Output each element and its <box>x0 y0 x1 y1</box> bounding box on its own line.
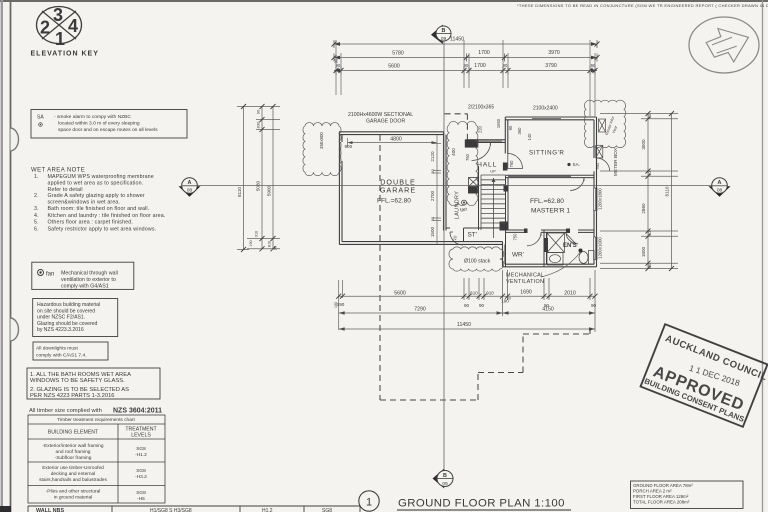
svg-text:3790: 3790 <box>545 63 557 69</box>
svg-text:830: 830 <box>256 121 261 128</box>
svg-text:GROUND FLOOR AREA 78m²: GROUND FLOOR AREA 78m² <box>633 483 693 488</box>
svg-text:4: 4 <box>68 16 78 36</box>
svg-text:90: 90 <box>647 231 652 236</box>
svg-text:ELEVATION KEY: ELEVATION KEY <box>31 51 99 58</box>
svg-text:UP: UP <box>490 169 496 174</box>
svg-text:SG8: SG8 <box>136 468 146 474</box>
svg-text:90: 90 <box>647 113 652 118</box>
svg-text:910: 910 <box>486 291 494 296</box>
svg-text:ST': ST' <box>468 232 477 239</box>
svg-text:SG8: SG8 <box>136 490 146 496</box>
svg-text:11450: 11450 <box>450 37 464 43</box>
svg-text:90: 90 <box>430 169 435 174</box>
svg-text:90: 90 <box>507 297 511 301</box>
svg-text:and roof framing: and roof framing <box>56 449 91 455</box>
svg-text:90: 90 <box>430 216 435 221</box>
svg-text:2/2100x365: 2/2100x365 <box>468 105 494 111</box>
svg-text:All downlights must: All downlights must <box>36 346 79 352</box>
svg-text:stairs,handrails and balustrad: stairs,handrails and balustrades <box>39 477 107 483</box>
svg-text:located within 3.0 m of every: located within 3.0 m of every sleeping <box>58 121 140 127</box>
svg-text:SG8: SG8 <box>322 508 332 512</box>
svg-text:2: 2 <box>40 18 50 38</box>
svg-text:2100x2400: 2100x2400 <box>533 106 558 112</box>
svg-text:- smoke alarm to compy with NZ: - smoke alarm to compy with NZBC <box>54 114 131 120</box>
svg-text:-H3.2: -H3.2 <box>135 474 147 480</box>
svg-text:VENTILATION: VENTILATION <box>506 279 544 285</box>
svg-text:Bath room: tile finished on f: Bath room: tile finished on floor and wa… <box>48 206 150 212</box>
svg-text:90: 90 <box>479 303 485 308</box>
svg-text:4.: 4. <box>34 213 39 219</box>
svg-text:-H1.2: -H1.2 <box>135 452 147 458</box>
svg-text:08: 08 <box>717 188 723 194</box>
svg-text:750: 750 <box>513 233 518 241</box>
svg-text:by NZS 4223.3.2016: by NZS 4223.3.2016 <box>37 327 84 333</box>
svg-text:SA: SA <box>37 115 44 121</box>
svg-text:1690: 1690 <box>520 290 532 296</box>
svg-text:190: 190 <box>337 302 345 307</box>
svg-text:WET AREA NOTE: WET AREA NOTE <box>31 168 85 174</box>
svg-text:Hazardous building material: Hazardous building material <box>37 302 100 308</box>
svg-text:-Piles and other structural: -Piles and other structural <box>46 489 101 495</box>
svg-text:1500: 1500 <box>430 226 435 237</box>
svg-text:90: 90 <box>274 246 278 250</box>
svg-text:SG8: SG8 <box>136 446 146 452</box>
svg-text:FFL.=62.80: FFL.=62.80 <box>377 198 411 205</box>
svg-text:1550: 1550 <box>496 118 501 128</box>
svg-text:760: 760 <box>465 153 470 161</box>
svg-text:5600: 5600 <box>394 291 406 297</box>
svg-text:HALL: HALL <box>477 162 497 169</box>
svg-text:2.: 2. <box>34 193 39 199</box>
svg-text:*THESE DIMENSIONS TO BE READ I: *THESE DIMENSIONS TO BE READ IN CONJUNCT… <box>517 3 768 8</box>
svg-text:in ground material: in ground material <box>54 495 92 501</box>
svg-text:Safety restrictor apply to wet: Safety restrictor apply to wet area wind… <box>48 226 157 232</box>
svg-text:GARAGE DOOR: GARAGE DOOR <box>366 119 405 125</box>
svg-text:H1.2: H1.2 <box>262 508 273 512</box>
svg-text:Mechanical through wall: Mechanical through wall <box>61 271 118 277</box>
svg-text:1: 1 <box>55 29 65 49</box>
svg-text:5780: 5780 <box>392 51 404 57</box>
svg-text:90: 90 <box>503 63 508 68</box>
svg-text:5600: 5600 <box>388 64 400 70</box>
svg-text:ventilation to exterior to: ventilation to exterior to <box>61 277 116 283</box>
svg-text:Exterior use timber-Unroofed: Exterior use timber-Unroofed <box>42 465 104 471</box>
svg-text:910: 910 <box>255 231 259 237</box>
svg-text:FFL.=62.80: FFL.=62.80 <box>530 198 564 205</box>
svg-text:B: B <box>442 28 446 34</box>
svg-text:WALL NBS: WALL NBS <box>36 508 64 512</box>
svg-text:90: 90 <box>508 125 513 130</box>
svg-text:760: 760 <box>509 160 514 168</box>
svg-text:3970: 3970 <box>548 50 560 56</box>
svg-text:Kitchen and laundry : tile f: Kitchen and laundry : tile finished on f… <box>48 213 166 219</box>
svg-text:comply with G4/AS1: comply with G4/AS1 <box>61 284 109 290</box>
svg-text:WR': WR' <box>512 252 524 259</box>
svg-text:3.: 3. <box>34 206 39 212</box>
svg-text:B: B <box>443 473 447 479</box>
svg-text:comply with C/AS1 7.4.: comply with C/AS1 7.4. <box>36 353 87 359</box>
svg-text:on site should be covered: on site should be covered <box>37 308 95 314</box>
svg-text:MECHANICAL: MECHANICAL <box>506 273 544 279</box>
svg-text:applied to wet area as to spec: applied to wet area as to specification. <box>48 181 144 187</box>
svg-text:A: A <box>718 180 722 186</box>
svg-text:2120: 2120 <box>430 151 435 162</box>
svg-text:2010: 2010 <box>564 291 576 297</box>
svg-text:3: 3 <box>53 5 63 25</box>
svg-text:FIRST FLOOR AREA 128m²: FIRST FLOOR AREA 128m² <box>633 494 689 499</box>
svg-text:METER BOX: METER BOX <box>613 147 619 176</box>
svg-text:3000: 3000 <box>641 139 646 150</box>
svg-text:09: 09 <box>442 481 448 487</box>
svg-text:190: 190 <box>648 263 652 269</box>
svg-text:2100Hx4600W SECTIONAL: 2100Hx4600W SECTIONAL <box>348 112 413 118</box>
svg-text:-Subfloor framing: -Subfloor framing <box>55 455 92 461</box>
svg-text:1700: 1700 <box>478 50 490 56</box>
svg-text:1.: 1. <box>34 174 39 180</box>
svg-text:90: 90 <box>334 58 339 63</box>
svg-text:90: 90 <box>464 63 469 68</box>
svg-text:11450: 11450 <box>457 322 471 328</box>
svg-text:TOTAL FLOOR AREA 208m²: TOTAL FLOOR AREA 208m² <box>633 500 690 505</box>
svg-text:08: 08 <box>187 188 193 194</box>
svg-text:1: 1 <box>366 497 372 509</box>
svg-text:7290: 7290 <box>414 307 426 313</box>
svg-text:SA.: SA. <box>573 162 580 167</box>
svg-text:NZS 3604:2011: NZS 3604:2011 <box>113 408 162 415</box>
svg-text:Ø100 stack: Ø100 stack <box>464 259 491 265</box>
svg-text:fan: fan <box>46 272 54 278</box>
svg-text:1700: 1700 <box>474 63 486 69</box>
svg-text:GARARE: GARARE <box>380 186 416 195</box>
svg-text:-Exterior/interior wall framin: -Exterior/interior wall framing <box>42 443 103 449</box>
svg-text:MAPEGUM WPS waterproofing mem: MAPEGUM WPS waterproofing membrane <box>48 174 154 180</box>
svg-text:900: 900 <box>345 144 353 149</box>
svg-text:EN'S: EN'S <box>563 243 577 249</box>
svg-text:810: 810 <box>268 241 272 247</box>
svg-text:4800: 4800 <box>390 137 402 143</box>
svg-text:140: 140 <box>527 133 532 141</box>
svg-text:2700: 2700 <box>430 190 435 201</box>
svg-text:90: 90 <box>647 171 652 176</box>
svg-text:LEVELS: LEVELS <box>131 433 151 439</box>
svg-text:1200x1800: 1200x1800 <box>598 188 603 210</box>
svg-text:90: 90 <box>464 303 470 308</box>
svg-text:-H5: -H5 <box>137 496 145 502</box>
svg-text:under NZSC F2/AS1.: under NZSC F2/AS1. <box>37 315 85 321</box>
svg-text:90: 90 <box>256 109 261 114</box>
svg-text:5.: 5. <box>34 220 39 226</box>
svg-text:Glazing should be covered: Glazing should be covered <box>37 321 97 327</box>
svg-text:1800: 1800 <box>641 246 646 257</box>
svg-text:BUILDING ELEMENT: BUILDING ELEMENT <box>48 430 99 436</box>
svg-text:360: 360 <box>517 127 522 135</box>
svg-text:1200x1000: 1200x1000 <box>598 237 603 259</box>
svg-text:8110: 8110 <box>237 187 242 197</box>
svg-text:190: 190 <box>249 240 253 246</box>
svg-text:space door and on escape route: space door and on escape routes on all l… <box>58 127 158 133</box>
svg-text:PORCH AREA 2 m²: PORCH AREA 2 m² <box>633 489 672 494</box>
svg-text:All timber size complied with: All timber size complied with <box>29 408 102 414</box>
svg-text:760: 760 <box>595 162 600 170</box>
svg-text:MASTER'R 1: MASTER'R 1 <box>531 208 570 215</box>
svg-text:Grade A safety glazing apply t: Grade A safety glazing apply to shower <box>48 193 145 199</box>
svg-text:2860: 2860 <box>641 203 646 214</box>
svg-text:610: 610 <box>470 291 478 296</box>
svg-text:90: 90 <box>591 303 597 308</box>
svg-text:Others floor area : carpet fi: Others floor area : carpet finished. <box>48 220 133 226</box>
svg-text:8110: 8110 <box>665 186 670 196</box>
svg-text:decking and enternal: decking and enternal <box>51 471 96 477</box>
svg-text:5900: 5900 <box>267 185 272 196</box>
svg-text:PER NZS 4223 PARTS 1-3.2016: PER NZS 4223 PARTS 1-3.2016 <box>30 393 115 399</box>
svg-text:H1/SG8 S H3/SG8: H1/SG8 S H3/SG8 <box>150 508 192 512</box>
svg-text:GROUND FLOOR PLAN 1:100: GROUND FLOOR PLAN 1:100 <box>398 498 565 510</box>
svg-text:6.: 6. <box>34 226 39 232</box>
svg-text:WINDOWS TO BE SAFETY GLASS.: WINDOWS TO BE SAFETY GLASS. <box>30 378 125 384</box>
svg-text:SITTING'R: SITTING'R <box>529 150 564 157</box>
svg-text:A: A <box>188 180 192 186</box>
svg-text:4150: 4150 <box>542 307 554 313</box>
svg-text:400: 400 <box>451 148 456 156</box>
svg-text:350x800: 350x800 <box>319 132 324 149</box>
svg-text:screen&windows in wet area.: screen&windows in wet area. <box>48 200 121 206</box>
svg-text:220: 220 <box>478 125 483 133</box>
svg-text:Timber treatment requirements: Timber treatment requirements chart <box>57 417 135 423</box>
svg-text:09: 09 <box>441 36 447 42</box>
